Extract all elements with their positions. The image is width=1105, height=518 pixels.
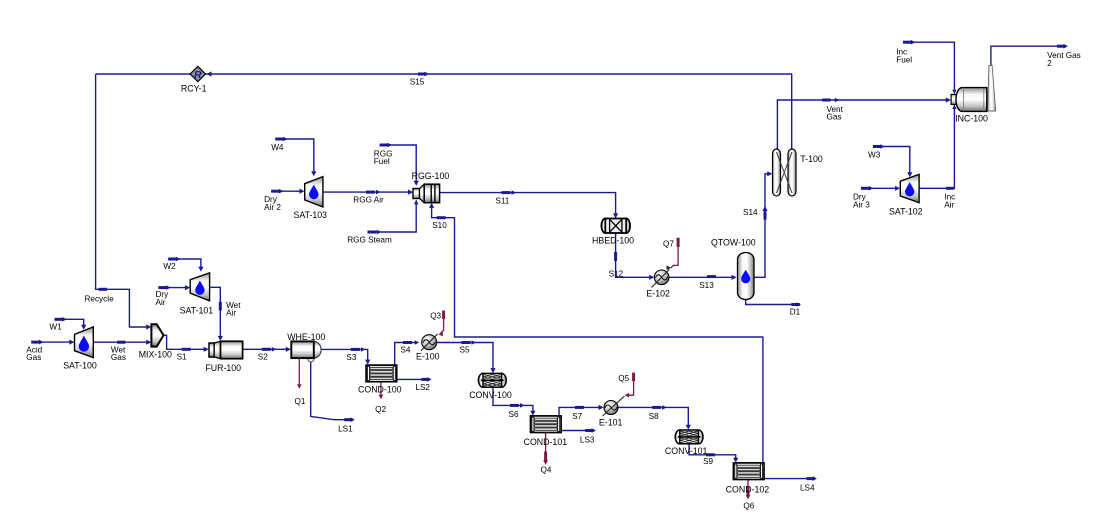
stream LS4 (COND-102 liquid) [763,476,817,492]
heat exchanger E-101 [599,396,625,428]
svg-text:LS2: LS2 [415,383,430,392]
stream LS3 (COND-101 liquid) [561,428,596,444]
stream D1 (QTOW-100 bottoms) [746,300,801,317]
svg-text:Q1: Q1 [295,397,306,406]
svg-text:S5: S5 [460,345,470,354]
stream RGG Fuel (to RGG-100) [374,143,419,186]
svg-text:LS1: LS1 [338,425,353,434]
energy stream Q5 (E-101 duty) [618,373,635,398]
svg-text:E-102: E-102 [646,288,670,298]
stream Wet Gas (SAT-100 to MIX-100) [93,340,151,363]
svg-text:S15: S15 [410,77,425,86]
energy stream Q7 (E-102 duty) [663,238,680,269]
svg-text:RGG Steam: RGG Steam [347,235,392,244]
svg-text:S9: S9 [703,457,713,466]
svg-text:E-100: E-100 [416,352,440,362]
air cooler COND-102 [726,463,770,494]
svg-text:SAT-100: SAT-100 [63,361,97,371]
energy stream Q3 (E-100 duty) [430,311,445,337]
incinerator INC-100 [951,65,996,123]
stream S8 (E-101 to CONV-101) [618,405,691,430]
svg-text:S3: S3 [346,353,356,362]
stream S10 (COND-102 overhead recycle to RGG-100) [429,203,763,463]
stream S14 (QTOW-100 to T-100) [743,171,772,277]
stream Inc Fuel (to INC-100) [896,40,956,94]
svg-text:S11: S11 [495,197,509,206]
stream W3 (water to SAT-102) [868,144,912,177]
svg-text:LS3: LS3 [580,435,595,444]
stream Vent Gas 2 (INC-100 stack outlet) [991,44,1081,68]
svg-text:Recycle: Recycle [85,294,115,303]
svg-text:Q7: Q7 [663,240,674,249]
svg-text:Vent Gas2: Vent Gas2 [1047,51,1081,68]
svg-text:CONV-101: CONV-101 [665,446,708,456]
horizontal bed reactor HBED-100 [592,219,634,246]
recycle operation RCY-1 [181,66,207,93]
svg-text:Q2: Q2 [375,405,386,414]
svg-text:VentGas: VentGas [827,105,844,122]
stream S1 (MIX-100 to FUR-100) [164,335,209,361]
stream Dry Air (to SAT-101) [156,285,191,307]
svg-text:Q6: Q6 [743,502,754,511]
stream W4 (water to SAT-103) [271,137,316,177]
svg-text:S8: S8 [649,412,659,421]
energy stream Q2 (COND-100 duty) [375,382,386,414]
stream S7 (COND-101 to E-101) [559,405,604,421]
svg-text:IncFuel: IncFuel [896,48,912,65]
svg-text:S7: S7 [572,412,582,421]
stream S11 (RGG-100 to HBED-100) [440,190,618,218]
svg-text:S6: S6 [509,410,519,419]
svg-text:WHE-100: WHE-100 [287,332,325,342]
svg-text:IncAir: IncAir [944,193,955,210]
svg-text:DryAir 2: DryAir 2 [264,195,281,212]
absorber columns T-100 [773,149,823,196]
svg-text:W1: W1 [49,322,62,331]
svg-text:Q4: Q4 [541,466,552,475]
svg-text:SAT-103: SAT-103 [294,210,328,220]
svg-text:FUR-100: FUR-100 [205,363,241,373]
converter CONV-100 [469,373,512,400]
svg-text:S2: S2 [258,352,268,361]
saturator SAT-100 [63,327,97,371]
stream S12 (HBED-100 to E-102) [609,233,655,280]
heat exchanger E-100 [416,334,440,362]
stream Dry Air 3 (to SAT-102) [853,186,900,210]
stream Wet Air (SAT-101 to FUR-100) [210,287,242,341]
stream riser from T-100 right column to S15 [791,74,793,149]
svg-text:LS4: LS4 [800,483,815,492]
svg-text:WetGas: WetGas [111,346,126,363]
stream W2 (water to SAT-101) [163,257,203,272]
svg-text:E-101: E-101 [599,418,623,428]
svg-text:W2: W2 [163,262,176,271]
svg-text:W4: W4 [271,143,284,152]
burner/reaction gas generator RGG-100 [412,171,450,203]
svg-text:S12: S12 [609,269,624,278]
svg-text:RGGFuel: RGGFuel [374,150,393,167]
svg-text:CONV-100: CONV-100 [469,390,512,400]
svg-text:SAT-101: SAT-101 [180,306,214,316]
svg-text:S4: S4 [400,345,410,354]
svg-text:RGG-100: RGG-100 [412,171,450,181]
svg-text:INC-100: INC-100 [955,113,988,123]
stream S6 (CONV-100 to COND-101) [493,387,536,419]
quench tower QTOW-100 [711,237,756,299]
saturator SAT-103 [294,177,328,220]
saturator SAT-101 [180,273,214,316]
air cooler COND-100 [358,365,402,395]
svg-text:S1: S1 [177,352,187,361]
stream LS2 (COND-100 liquid) [397,377,432,392]
stream S4 (COND-100 to E-100) [395,340,420,365]
stream S9 (CONV-101 to COND-102) [689,444,738,466]
svg-text:S10: S10 [432,221,447,230]
air cooler COND-101 [524,416,568,447]
svg-text:COND-102: COND-102 [726,484,770,494]
svg-text:DryAir 3: DryAir 3 [853,193,870,210]
svg-text:T-100: T-100 [800,154,823,164]
svg-text:RGG Air: RGG Air [353,195,384,204]
furnace FUR-100 [205,341,242,373]
stream S13 (E-102 to QTOW-100) [669,275,737,290]
stream LS1 (WHE-100 boot liquid) [311,361,355,434]
stream Recycle (RCY-1 to MIX-100) [85,74,191,330]
svg-text:AcidGas: AcidGas [26,346,42,363]
svg-text:HBED-100: HBED-100 [592,235,634,245]
svg-text:Q5: Q5 [618,374,629,383]
svg-text:DryAir: DryAir [156,290,170,307]
waste heat exchanger WHE-100 [287,332,325,362]
svg-text:COND-100: COND-100 [358,385,402,395]
stream Inc Air (SAT-102 to INC-100) [919,105,957,210]
saturator SAT-102 [889,174,923,216]
svg-text:S13: S13 [699,281,714,290]
stream RGG Air (SAT-103 to RGG-100) [323,190,413,205]
converter CONV-101 [665,430,708,456]
stream W1 (water to SAT-100) [49,317,86,331]
mixer MIX-100 [139,324,172,359]
svg-text:R: R [194,69,202,81]
svg-text:QTOW-100: QTOW-100 [711,237,756,247]
svg-text:WetAir: WetAir [226,301,241,318]
energy stream Q4 (COND-101 duty) [541,432,552,474]
stream S5 (E-100 to CONV-100) [437,340,496,373]
svg-text:SAT-102: SAT-102 [889,206,923,216]
svg-text:S14: S14 [743,208,758,217]
svg-text:Q3: Q3 [430,312,441,321]
stream Vent Gas (T-100 to INC-100) [777,97,950,149]
stream Acid Gas (feed to SAT-100) [26,340,74,363]
stream S2 (FUR-100 to WHE-100) [243,347,291,362]
svg-text:RCY-1: RCY-1 [181,84,207,94]
stream RGG Steam (to RGG-100) [347,200,418,244]
heat exchanger E-102 [646,265,671,298]
stream S3 (WHE-100 to COND-100) [321,347,370,365]
svg-text:W3: W3 [868,151,881,160]
energy stream Q6 (COND-102 duty) [743,480,754,511]
svg-text:COND-101: COND-101 [524,437,568,447]
stream Dry Air 2 (to SAT-103) [264,189,304,212]
svg-text:D1: D1 [790,308,801,317]
energy stream Q1 (WHE-100 duty) [295,359,306,407]
svg-text:MIX-100: MIX-100 [139,350,172,360]
stream S15 (T-100 overhead to RCY-1) [205,71,792,86]
